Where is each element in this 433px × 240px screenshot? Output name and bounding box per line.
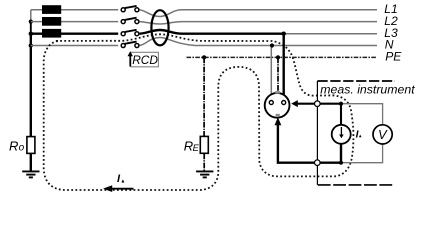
svg-text:meas. instrument: meas. instrument [320, 82, 415, 96]
ground (RE) [196, 171, 213, 177]
svg-text:o: o [19, 142, 25, 153]
terminal: upper [315, 101, 321, 107]
svg-text:V: V [378, 127, 388, 142]
node: PE corner dot [202, 55, 206, 59]
wire: N tap to socket [270, 46, 272, 96]
svg-text:RCD: RCD [132, 53, 158, 67]
svg-text:PE: PE [385, 50, 402, 64]
fuse F1 [42, 5, 61, 14]
arrow Ia (test current direction) [110, 188, 134, 190]
voltmeter V [373, 125, 392, 144]
node: bus-N junction [29, 43, 33, 47]
switch S4 (RCD contact N) [121, 42, 139, 48]
resistor RE [200, 136, 208, 153]
svg-text:R: R [9, 138, 18, 153]
wire: source bus vertical [30, 10, 32, 22]
wire: PE down to RE (dash-dot) [203, 57, 205, 136]
ground (Ro) [22, 171, 39, 177]
node: bus-L3 junction [29, 32, 33, 36]
wire: PE tap to socket (dash-dot) [277, 57, 279, 94]
socket hole L [269, 101, 273, 105]
terminal: lower [315, 160, 321, 166]
wire L1 [31, 9, 118, 11]
node: bottom junction [339, 161, 343, 165]
switch S3 (RCD contact L3) [121, 30, 139, 36]
fuse F2 [42, 17, 61, 26]
wire L3 (bold test path) [31, 33, 118, 35]
wire: voltmeter parallel branch [341, 104, 383, 125]
current source I-delta [332, 125, 351, 144]
socket hole N [282, 101, 286, 105]
node: bus-L2 junction [29, 20, 33, 24]
dotted test-current loop Ia [44, 34, 354, 190]
wire: instrument upper lead with arrow into socket [297, 104, 342, 125]
node: PE tap junction [276, 55, 280, 59]
resistor Ro [27, 137, 35, 154]
meas. instrument box (dashed top/bottom, solid left edge) [317, 80, 395, 82]
switch S1 (RCD contact L1) [121, 6, 139, 12]
wire L2 [31, 21, 118, 23]
node: top junction [339, 102, 343, 106]
wire: L3 tap to socket (bold) [283, 34, 285, 97]
wire N [31, 45, 118, 47]
node: N tap junction [270, 43, 274, 47]
PE line (dash-dot) [187, 56, 378, 58]
wire: instrument lower lead with arrow into socket bottom [278, 125, 341, 163]
fuse F3 [42, 29, 61, 38]
svg-text:E: E [193, 143, 200, 153]
node: L3 tap junction [282, 32, 286, 36]
switch S2 (RCD contact L2) [121, 18, 139, 24]
RCD label box [131, 52, 159, 67]
RCD trip arrow [129, 55, 131, 67]
socket outlet [265, 93, 290, 118]
RCD toroid core [151, 10, 168, 45]
